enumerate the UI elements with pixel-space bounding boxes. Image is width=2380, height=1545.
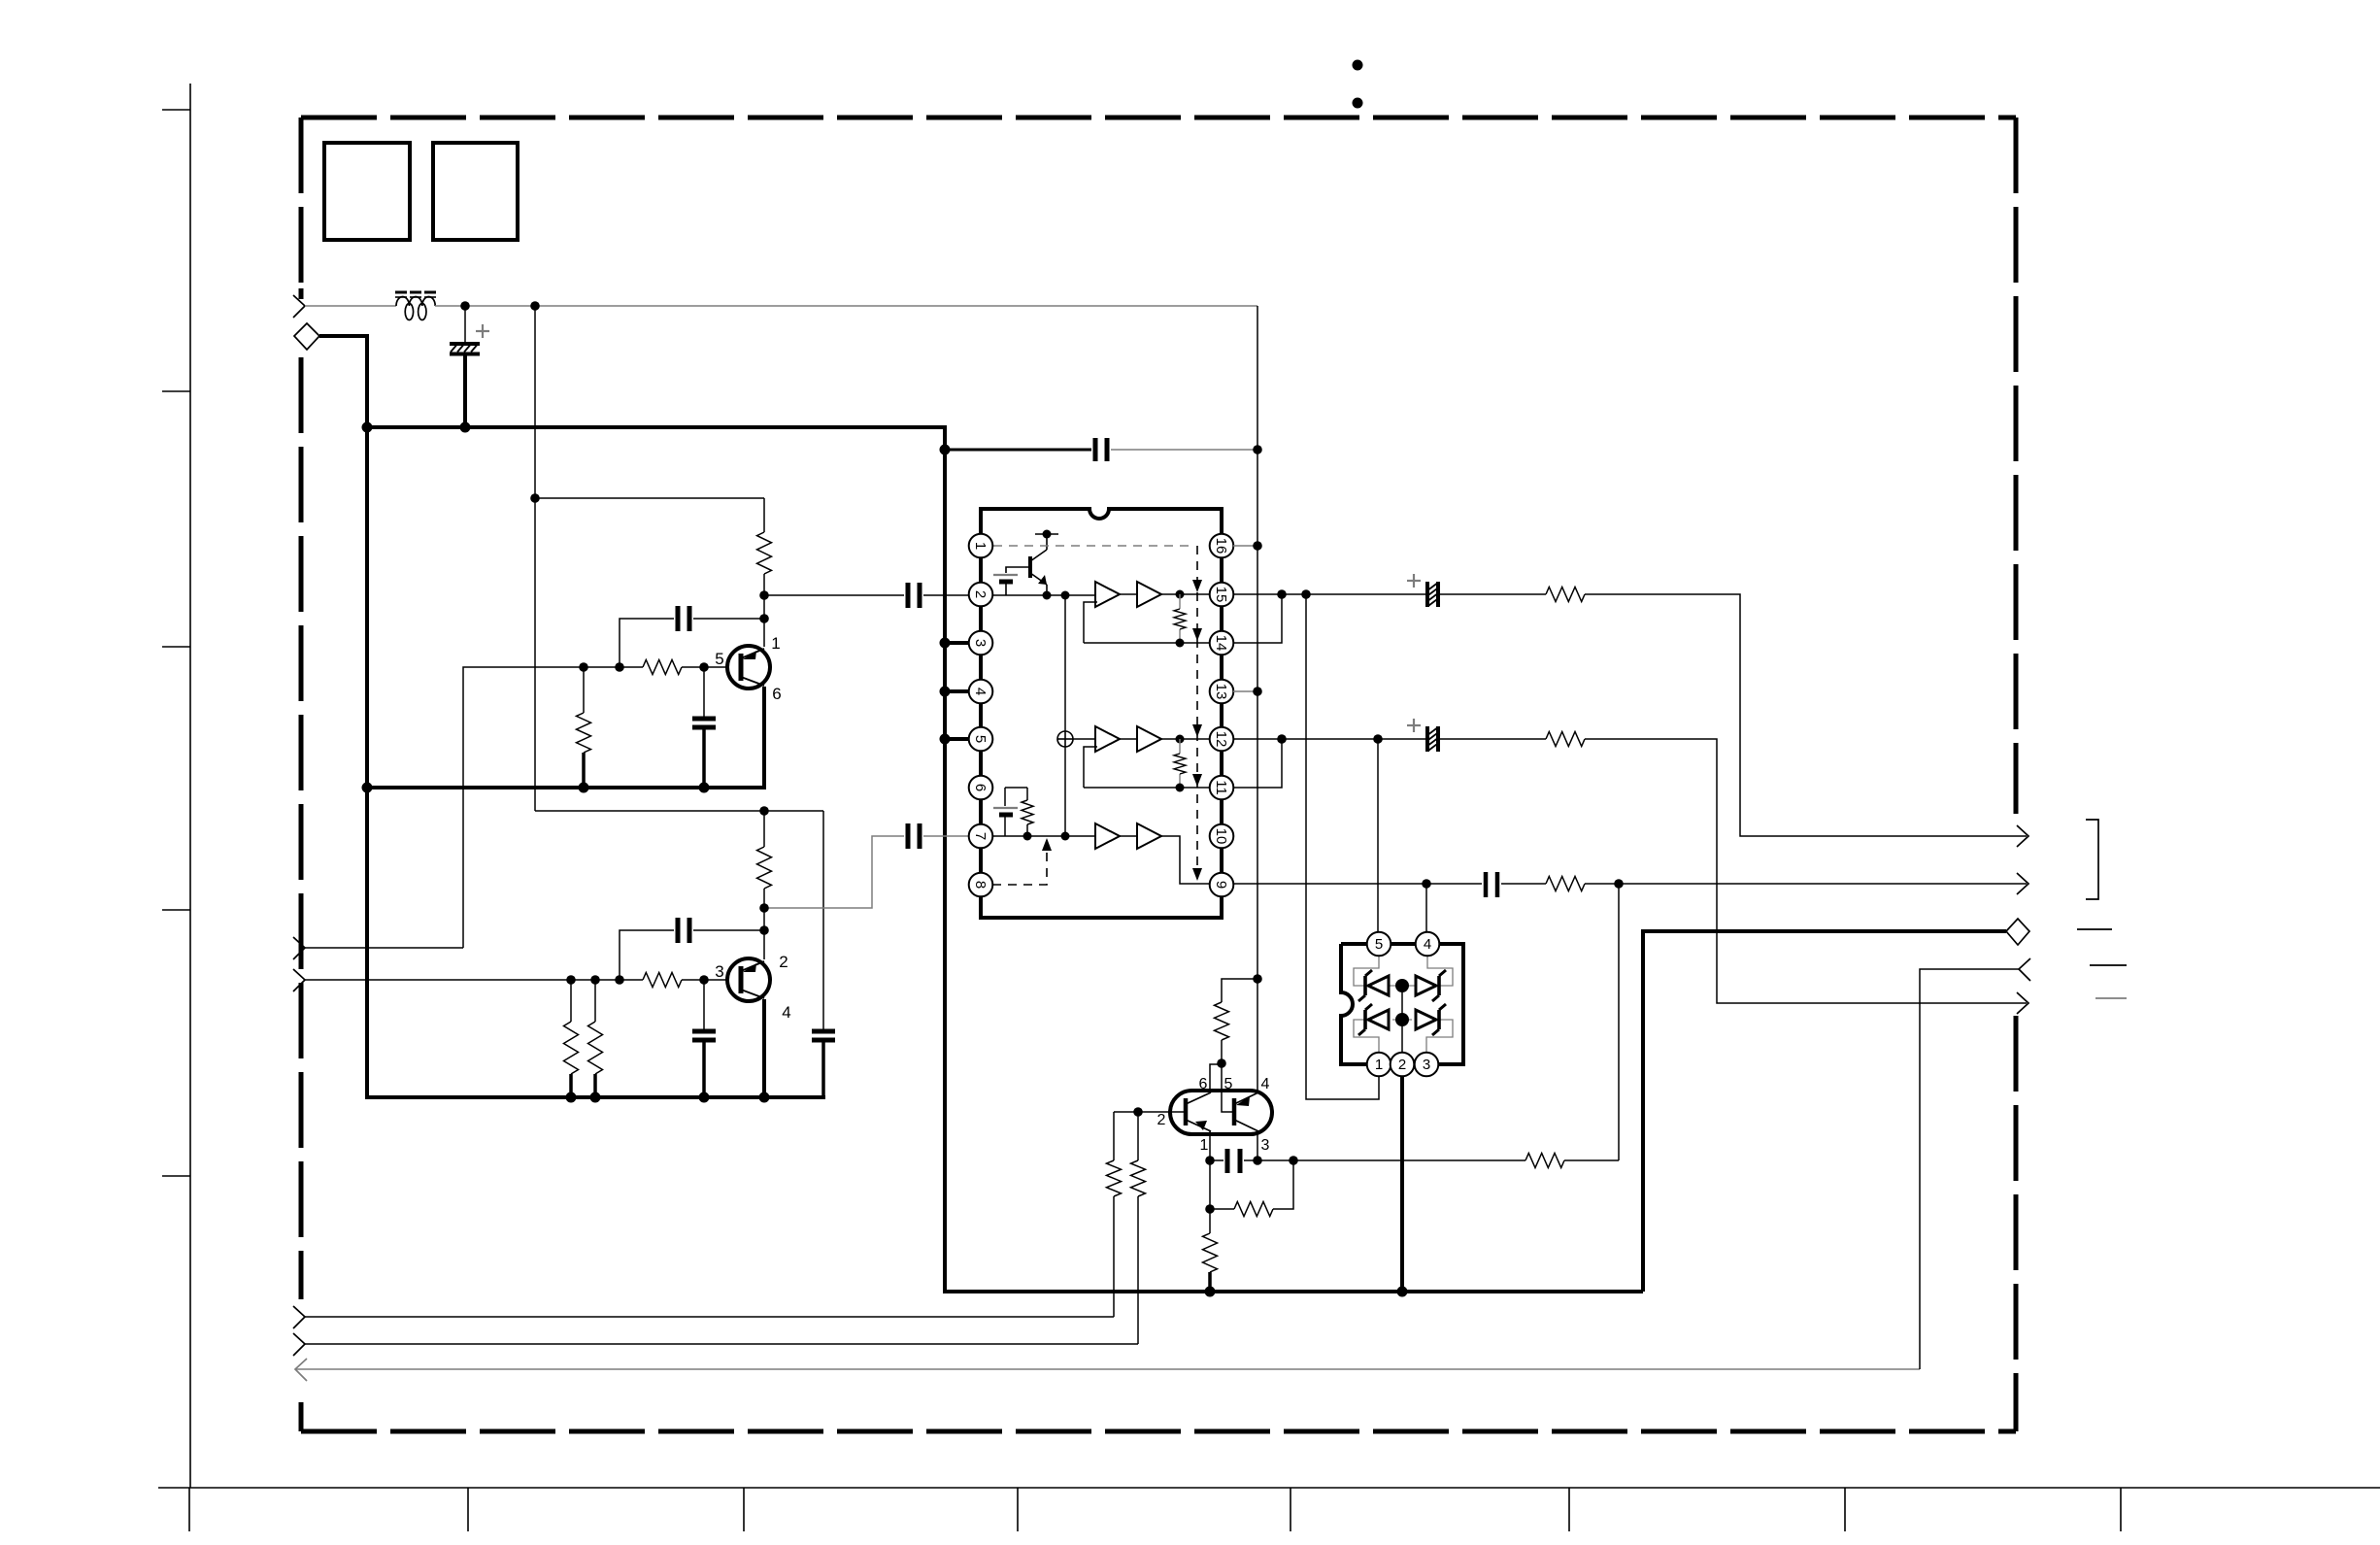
wire pin12 net to diode pack pin5 [1377, 739, 1379, 932]
svg-text:9: 9 [1213, 881, 1229, 889]
shield border left (short dash at input) [299, 288, 304, 299]
wire cap leads y=1195 [1210, 1159, 1257, 1161]
svg-text:2: 2 [1398, 1057, 1406, 1073]
svg-text:6: 6 [772, 685, 781, 703]
wire Q2 collector to pin7 cap [764, 836, 904, 908]
riser wire x=1295 (B+ to diode pack pin4) [1257, 306, 1258, 1093]
svg-text:1: 1 [771, 634, 780, 653]
resistor Q2 bias 2 [588, 1022, 603, 1074]
connector box 2 (empty square) [433, 143, 518, 240]
junction dot (787,935) [759, 903, 769, 913]
IC internal bias segment [1035, 533, 1058, 535]
wire y=1195 to output resistor [1257, 1159, 1525, 1161]
shield border left (dashed, lower) [299, 357, 304, 1299]
wire pin9 cap to resistor [1501, 883, 1546, 885]
wire pin15 resistor to corner [1585, 594, 2027, 836]
wire bottom input 2 [305, 1343, 1138, 1345]
wire base input riser 1 top [1113, 1112, 1115, 1160]
resistor IC feedback 15-14 [1174, 609, 1186, 629]
IC pin 10 circle [1210, 824, 1234, 849]
thick lead to decoupling cap y=463 [945, 449, 1091, 452]
diode pack junction dot lower [1395, 1013, 1409, 1026]
junction dot (1332,1195) [1289, 1156, 1298, 1165]
junction dot (1078,613) [1043, 591, 1052, 600]
top reference dot 1 [1353, 60, 1363, 71]
thick emitter bus Q1 y=811 [365, 786, 766, 789]
wire Q3 pin6 lead [1210, 1064, 1222, 1094]
wire fb cap right lead Q2 [693, 929, 764, 931]
junction dot (479,440) [460, 422, 471, 433]
svg-text:6: 6 [972, 784, 989, 791]
input chevron bottom 1 [293, 1306, 305, 1328]
shield border right (dashed, lower) [2014, 1016, 2019, 1431]
resistor IC feedback 12-11 [1174, 754, 1186, 774]
IC amplifier stage 1 [1095, 582, 1161, 607]
svg-text:1: 1 [972, 542, 989, 550]
wire Q3 pin5 into base [1222, 1091, 1232, 1112]
junction dot (787,835) [759, 806, 769, 816]
plus sign pin12 cap [1407, 719, 1421, 732]
ruler bottom tick [1844, 1488, 1846, 1531]
feedback capacitor Q1 C-B [678, 606, 689, 631]
IC pin7 internal wire [992, 835, 1095, 837]
capacitor Q2 emitter bypass [692, 1031, 716, 1040]
svg-text:4: 4 [972, 688, 989, 695]
svg-text:3: 3 [1423, 1057, 1430, 1073]
wire bead to IC-right riser [435, 305, 1257, 307]
wire amp3 out to pin9 [1161, 836, 1211, 884]
wire fb cap right lead [693, 618, 764, 620]
decoupling capacitor C(1134) plates [1095, 438, 1107, 461]
input chevron bottom 2 [293, 1333, 305, 1356]
svg-text:12: 12 [1213, 731, 1229, 748]
bracket mark right [2086, 820, 2098, 899]
electrolytic capacitor on pin15 net [1427, 582, 1438, 607]
ruler bottom tick [1290, 1488, 1291, 1531]
shield border bottom (dashed) [301, 1429, 2016, 1434]
ruler bottom horizontal line [158, 1487, 2380, 1489]
output chevron bottom (left-pointing) [295, 1359, 307, 1381]
svg-text:7: 7 [972, 832, 989, 840]
junction dot (479,315) [460, 301, 470, 311]
junction dot (1246,1195) [1205, 1156, 1215, 1165]
electrolytic capacitor on pin12 net [1427, 726, 1438, 752]
IC internal vertical pin2 to pin7 [1064, 595, 1066, 836]
wire IC pin16 to riser [1233, 545, 1257, 547]
junction dot (551,513) [530, 493, 540, 503]
junction dot (973,662) [940, 638, 951, 649]
IC pin 2 circle [969, 583, 993, 607]
svg-text:2: 2 [1157, 1112, 1166, 1128]
Q3 left transistor [1186, 1092, 1211, 1131]
junction dot (725,811) [699, 783, 710, 793]
junction dot (588,1009) [566, 975, 576, 985]
wire Q2 emitter cap top [703, 980, 705, 1029]
wire fb cap left lead Q2 [620, 930, 674, 980]
diode pack pin 2 circle [1391, 1053, 1415, 1077]
junction dot (1258,1095) [1217, 1058, 1226, 1068]
svg-text:15: 15 [1213, 587, 1229, 603]
svg-text:3: 3 [972, 639, 989, 647]
input chevron (B+ line) [293, 295, 305, 318]
resistor pin9 output series [1546, 877, 1585, 891]
AGC arrowhead at y=612 [1192, 580, 1202, 592]
resistor y=1245 feedback [1234, 1202, 1273, 1217]
shield border top (dashed) [301, 116, 2016, 120]
wire Q2 collector res leads [763, 811, 765, 847]
dashed AGC line from pin1 [993, 545, 1193, 547]
wire amp1 out to pin15 [1161, 593, 1211, 595]
wire Q3 pin1 down [1209, 1160, 1211, 1233]
wire Q1 collector top [763, 498, 765, 532]
junction dot (725,687) [699, 662, 709, 672]
ferrite bead / line filter coil L [396, 297, 435, 320]
junction dot (1444,1330) [1397, 1287, 1408, 1297]
resistor Q3 emitter to ground [1203, 1233, 1218, 1272]
shield border right (dashed, upper) [2014, 118, 2019, 814]
diode pack junction dot upper [1395, 979, 1409, 992]
thick lead bias1 to bus [569, 1074, 573, 1097]
junction dot (1246,1245) [1205, 1204, 1215, 1214]
ruler left tick [162, 109, 190, 111]
junction dot (1320,612) [1277, 589, 1287, 599]
svg-text:5: 5 [1375, 936, 1383, 953]
junction dot (1172,1145) [1133, 1107, 1143, 1117]
wire Q2 base line [305, 979, 643, 981]
junction dot (1097,613) [1061, 591, 1070, 600]
wire resistor to x=1667 [1564, 1159, 1619, 1161]
wire amp1 feedback loop [1084, 602, 1097, 643]
supply branch vertical x=551 [534, 306, 536, 811]
svg-text:8: 8 [972, 881, 989, 889]
AGC arrowhead at y=761 [1192, 724, 1202, 737]
resistor base input 1 [1107, 1160, 1122, 1196]
resistor Q1 collector load [757, 532, 772, 574]
resistor IC feedback 12-11 leads [1179, 739, 1181, 788]
zener diode D1c [1358, 1004, 1389, 1035]
resistor Q2 bias 1 leads [570, 980, 572, 1022]
IC pin 11 circle [1210, 776, 1234, 800]
ruler bottom tick [188, 1488, 190, 1531]
wire pin12 resistor to corner [1585, 739, 2027, 1003]
ruler left tick [162, 646, 190, 648]
IC pin 7 circle [969, 824, 993, 849]
diode pack center link [1401, 986, 1403, 1053]
junction dot (378,440) [362, 422, 373, 433]
thick lead bypass cap to bus [702, 727, 706, 788]
junction dot (973,463) [940, 445, 951, 455]
output arrow 3 [2017, 992, 2028, 1014]
svg-text:5: 5 [1224, 1076, 1233, 1092]
junction dot (787,613) [759, 590, 769, 600]
right connector chevron (left-pointing) [2019, 958, 2030, 981]
junction dot (973,761) [940, 734, 951, 745]
junction dot (588,1130) [566, 1092, 577, 1103]
resistor Q1 base bias [577, 713, 591, 753]
short mark 1 [2077, 928, 2112, 930]
thick ground bus y=440 [365, 425, 945, 429]
wire IC pin9 output [1233, 883, 1482, 885]
IC pin 5 circle [969, 727, 993, 752]
feedback capacitor Q2 C-B [678, 918, 689, 943]
wire amp2 feedback loop [1084, 747, 1097, 788]
wire pin9 net to diode pack pin4 [1425, 884, 1427, 932]
wire sum to amp2 [1073, 738, 1095, 740]
thick ground bus bottom y=1330 [943, 1290, 1643, 1293]
svg-text:4: 4 [1261, 1076, 1270, 1092]
resistor Q1 base series [643, 660, 682, 675]
transistor Q1 [727, 646, 770, 689]
wire line3 riser to right connector [1920, 969, 2019, 1369]
IC internal resistor near pin7 [1022, 788, 1033, 836]
wire IC pin12 output [1233, 738, 1427, 740]
svg-text:14: 14 [1213, 635, 1229, 652]
thick lead C(848) to bus [821, 1040, 825, 1097]
thick vertical supply/ground wire x=378 [365, 334, 369, 1097]
wire Q3 base line left [1114, 1111, 1186, 1113]
thick wire Q1 emitter to bus [762, 687, 766, 788]
thick emitter bus Q2 y=1130 [365, 1095, 825, 1099]
IC pin2 internal wire [992, 594, 1095, 596]
shield border left (dashed, upper) [299, 118, 304, 285]
thick wire bus to diamond output [1643, 931, 2006, 1292]
wire base input riser 1 [1113, 1196, 1115, 1317]
diode pack internal wiring [1354, 956, 1453, 1053]
coupling capacitor to IC pin2 [908, 583, 920, 608]
wire pin12 cap to resistor [1438, 738, 1546, 740]
wire to Q2 base [682, 979, 739, 981]
junction dot (1667,910) [1614, 879, 1624, 889]
short mark 2 [2090, 964, 2127, 966]
junction dot (1097,861) [1061, 832, 1070, 841]
IC internal RC top link [1005, 787, 1027, 789]
IC pin 16 circle [1210, 534, 1234, 558]
electrolytic capacitor C(479) hatch rungs [451, 346, 477, 353]
wire input1 [305, 947, 463, 949]
junction dot (787,637) [759, 614, 769, 623]
junction dot (1469,910) [1422, 879, 1431, 889]
wire pin15 net to diode pack pin1 [1306, 594, 1379, 1099]
wire line to cap C(479) [464, 306, 466, 342]
output arrow 2 [2017, 873, 2028, 894]
thick ground vertical x=973 [943, 425, 947, 1292]
resistor pin12 output series [1546, 732, 1585, 747]
thick stub IC pin to ground x=973 y=662 [945, 641, 971, 645]
junction dot (551,315) [530, 301, 540, 311]
IC pin 12 circle [1210, 727, 1234, 752]
junction dot (1078,550) [1043, 530, 1052, 539]
svg-text:1: 1 [1200, 1137, 1209, 1154]
wire drop to cap C(848) [822, 811, 824, 1031]
input chevron (to Q2 base) [293, 969, 305, 991]
junction dot (1058,861) [1023, 832, 1032, 841]
wire cap to riser x=1295 [1111, 449, 1257, 451]
junction dot (787,958) [759, 925, 769, 935]
thick lead bias resistor to bus [582, 753, 586, 788]
junction dot (973,712) [940, 687, 951, 697]
output arrow 1 [2017, 825, 2028, 847]
svg-text:16: 16 [1213, 538, 1229, 554]
IC pin 3 circle [969, 631, 993, 655]
thick wire Q2 emitter to bus [762, 999, 766, 1097]
ruler bottom tick [1568, 1488, 1570, 1531]
IC pin 1 circle [969, 534, 993, 558]
IC pin11 internal wire [1084, 787, 1211, 789]
short mark 3 [2095, 997, 2127, 999]
resistor Q2 bias 1 [564, 1022, 579, 1074]
svg-text:2: 2 [972, 590, 989, 598]
ruler left tick [162, 909, 190, 911]
input chevron (to Q1 base) [293, 937, 305, 959]
svg-text:10: 10 [1213, 828, 1229, 845]
thick lead Q2 bypass cap to bus [702, 1040, 706, 1097]
ferrite bead core bars [395, 292, 436, 297]
junction dot (1295,562) [1253, 541, 1262, 551]
zener diode D1d [1416, 1004, 1446, 1035]
svg-text:3: 3 [715, 962, 723, 981]
resistor y=1195 series [1525, 1154, 1564, 1168]
junction dot (1295,1008) [1253, 974, 1262, 984]
resistor Q2 base series [643, 973, 682, 988]
wire base input riser 2 [1137, 1196, 1139, 1344]
IC internal cap near pin7 [993, 788, 1018, 836]
wire Q1 base feed riser [463, 667, 643, 948]
diode pack pin 4 circle [1416, 932, 1440, 957]
junction dot (601,687) [579, 662, 588, 672]
IC pin 14 circle [1210, 631, 1234, 655]
wire cap to IC pin2 [923, 594, 969, 596]
thick wire diode pack pin2 to ground bus [1400, 1076, 1404, 1292]
junction dot (725,1009) [699, 975, 709, 985]
wire Q3 pin3 lead down [1257, 1131, 1258, 1160]
IC pin 13 circle [1210, 680, 1234, 704]
resistor Q2 collector load [757, 847, 772, 889]
AGC arrowhead at y=909 [1192, 868, 1202, 881]
wire amp2 out to pin12 [1161, 738, 1211, 740]
wire cap to IC pin7 [923, 835, 969, 837]
junction dot (1419,761) [1373, 734, 1383, 744]
svg-text:1: 1 [1375, 1057, 1383, 1073]
junction dot (601,811) [579, 783, 589, 793]
junction dot (1215,612) [1176, 590, 1185, 599]
thick lead bias2 to bus [593, 1074, 597, 1097]
IC amplifier stage 3 [1095, 823, 1161, 849]
shield border left (dash below inputs) [299, 1402, 304, 1431]
dual transistor Q3 outline [1170, 1091, 1272, 1134]
wire y=1245 links [1210, 1160, 1293, 1209]
ruler bottom tick [1017, 1488, 1019, 1531]
wire IC pin14 jog to pin15 [1233, 594, 1282, 643]
plus sign of C(479) [476, 324, 489, 338]
wire IC pin15 output [1233, 593, 1427, 595]
wire Q3 pin1 lead down [1209, 1131, 1211, 1160]
junction dot (1345,612) [1301, 589, 1311, 599]
wire pin15 cap to resistor [1438, 593, 1546, 595]
wire bottom line 3 [295, 1368, 1920, 1370]
junction dot (725,1130) [699, 1092, 710, 1103]
coupling capacitor to IC pin7 [908, 823, 920, 849]
dashed mute line from pin8 [992, 847, 1047, 885]
thick stub IC pin to ground x=973 y=712 [945, 689, 971, 693]
svg-text:4: 4 [782, 1003, 790, 1022]
wire Q1 collector [763, 574, 765, 647]
top reference dot 2 [1353, 98, 1363, 109]
summing node circle-plus [1057, 731, 1073, 747]
svg-text:5: 5 [972, 735, 989, 743]
junction dot (613,1009) [590, 975, 600, 985]
junction dot (1215,761) [1176, 735, 1185, 744]
svg-text:2: 2 [779, 953, 788, 971]
IC pin 8 circle [969, 873, 993, 897]
diamond output connector [2006, 919, 2029, 945]
IC internal base network cap [993, 567, 1030, 595]
diamond input connector [294, 323, 319, 350]
Q3 right transistor [1234, 1092, 1258, 1131]
thick stub IC pin to ground x=973 y=761 [945, 737, 971, 741]
AGC arrowhead at y=812 [1192, 774, 1202, 787]
svg-text:6: 6 [1199, 1076, 1208, 1092]
IC pin 9 circle [1210, 873, 1234, 897]
junction dot (1295,712) [1253, 687, 1262, 696]
wire fb cap left lead [620, 619, 674, 667]
connector box 1 (empty square) [324, 143, 410, 240]
junction dot (787,1130) [759, 1092, 770, 1103]
wire pin9 resistor to output [1585, 883, 2027, 885]
resistor IC feedback 15-14 leads [1179, 594, 1181, 643]
zener diode D1a [1358, 970, 1389, 1001]
wire IC pin11 jog to pin12 [1233, 739, 1282, 788]
dashed AGC vertical [1196, 546, 1198, 871]
resistor pin15 output series [1546, 588, 1585, 602]
electrolytic capacitor C(479) top plate [450, 342, 480, 346]
junction dot (1295,1195) [1253, 1156, 1262, 1165]
capacitor C(848) plates [812, 1031, 835, 1040]
resistor base input 2 [1131, 1160, 1146, 1196]
wire bias resistor to pin5 [1221, 1040, 1223, 1112]
IC pin 6 circle [969, 776, 993, 800]
svg-text:11: 11 [1213, 780, 1229, 795]
wire riser to Q3 bias resistor [1222, 979, 1257, 1002]
junction dot (1295,463) [1253, 445, 1262, 454]
ruler bottom tick [2120, 1488, 2122, 1531]
junction dot (613,1130) [590, 1092, 601, 1103]
wire Q1 emitter cap top [703, 667, 705, 717]
diode pack pin 3 circle [1415, 1053, 1439, 1077]
wire pin9 down-feed x=1667 [1618, 884, 1620, 1160]
IC amplifier stage 2 [1095, 726, 1161, 752]
ruler left tick [162, 390, 190, 392]
AGC arrowhead at y=662 [1192, 628, 1202, 641]
IC pin 15 circle [1210, 583, 1234, 607]
thick lead emitter resistor to bus [1208, 1272, 1212, 1292]
mute arrowhead up [1042, 838, 1052, 851]
electrolytic capacitor C(479) bottom plate [450, 353, 480, 356]
junction dot (1215,811) [1176, 784, 1185, 792]
thick lead C(479) to bus [463, 355, 467, 427]
capacitor Q1 emitter bypass [692, 719, 716, 727]
svg-text:13: 13 [1213, 684, 1229, 700]
junction dot (1215,662) [1176, 639, 1185, 648]
zener diode D1b [1416, 970, 1446, 1001]
junction dot (378,811) [362, 783, 373, 793]
ruler left vertical line [189, 84, 191, 1488]
op-amp IC U1 outline [981, 509, 1222, 918]
junction dot (1246,1330) [1205, 1287, 1216, 1297]
resistor Q3 bias top [1215, 1002, 1229, 1040]
wire y=513 to Q1 collector load [535, 497, 764, 499]
resistor Q2 bias 2 leads [594, 980, 596, 1022]
IC pin14 internal wire [1084, 642, 1211, 644]
